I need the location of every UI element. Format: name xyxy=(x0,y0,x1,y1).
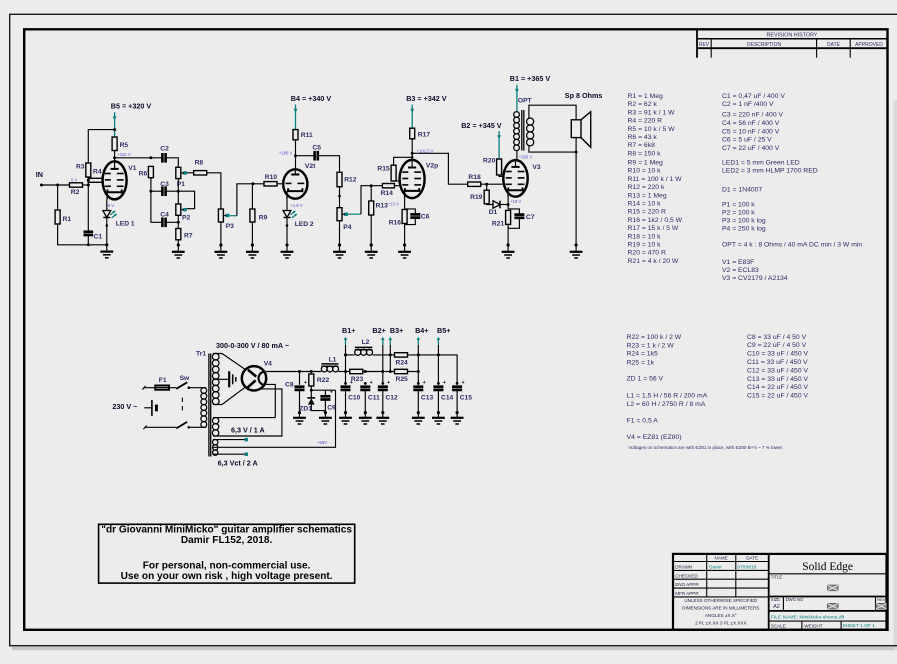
svg-text:C13 = 33 uF / 450 V: C13 = 33 uF / 450 V xyxy=(747,376,808,383)
svg-text:For personal, non-commercial u: For personal, non-commercial use. xyxy=(143,560,311,571)
svg-text:B5 = +320 V: B5 = +320 V xyxy=(111,102,152,111)
svg-text:R17 = 15 k / 5 W: R17 = 15 k / 5 W xyxy=(628,225,679,232)
wire B1 riser xyxy=(345,345,347,385)
wire IN to R2 xyxy=(42,184,70,186)
resistor R11 xyxy=(293,130,313,140)
svg-text:6,3 V / 1 A: 6,3 V / 1 A xyxy=(231,425,265,434)
ground R9 xyxy=(251,243,254,246)
svg-text:UNLESS OTHERWISE SPECIFIED: UNLESS OTHERWISE SPECIFIED xyxy=(684,598,758,603)
svg-text:R10: R10 xyxy=(265,174,278,181)
fuse F1 xyxy=(155,377,169,390)
svg-text:R17: R17 xyxy=(418,132,431,139)
svg-text:C14 = 22 uF / 450 V: C14 = 22 uF / 450 V xyxy=(747,384,808,391)
svg-text:IN: IN xyxy=(36,170,43,179)
junction C1 at bottom bus xyxy=(87,243,90,246)
wire C8 to ground xyxy=(299,390,301,412)
wire C3 to P2 wiper loop xyxy=(166,191,195,209)
junction R6 top xyxy=(149,156,152,159)
svg-text:DESCRIPTION: DESCRIPTION xyxy=(747,42,782,48)
pentode V2p tube xyxy=(400,160,439,199)
resistor R15 xyxy=(377,165,396,181)
ground ZD1 C9 xyxy=(324,411,327,414)
wire P2 to R7 xyxy=(177,215,179,228)
wire V4 cathode output xyxy=(266,371,322,373)
wire P3 wiper riser to V2 grid xyxy=(237,184,264,216)
switch link dashed xyxy=(181,398,183,402)
wire R8 to P3 xyxy=(207,173,221,209)
LED1 diode xyxy=(103,211,135,228)
ground HV center tap rotated xyxy=(229,371,236,387)
svg-text:C1: C1 xyxy=(94,234,103,241)
wire L1 to B1 node xyxy=(338,371,349,373)
wire top bus to R3 xyxy=(88,130,114,163)
svg-text:CHECKED: CHECKED xyxy=(675,573,698,578)
svg-text:B4 = +340 V: B4 = +340 V xyxy=(291,94,332,103)
node IN terminal xyxy=(40,184,43,187)
wire R3 to grid column xyxy=(87,177,89,232)
supply tap arrow B4 xyxy=(417,340,419,345)
svg-text:300-0-300 V / 80 mA ~: 300-0-300 V / 80 mA ~ xyxy=(216,341,289,350)
Tr1 6.3V winding xyxy=(212,417,218,423)
svg-text:C11 = 33 uF / 450 V: C11 = 33 uF / 450 V xyxy=(747,359,808,366)
wire C11 to ground xyxy=(364,390,366,412)
title block frame xyxy=(673,554,887,630)
svg-text:C8: C8 xyxy=(285,381,294,388)
resistor R21 xyxy=(492,210,511,227)
svg-text:D1 = 1N4007: D1 = 1N4007 xyxy=(722,187,762,194)
OPT core xyxy=(521,110,523,151)
capacitor C4 xyxy=(160,211,169,227)
junction V2 anode xyxy=(294,154,297,157)
ground R16 xyxy=(403,243,406,246)
wire B3 riser xyxy=(389,345,391,372)
revision history table xyxy=(697,31,888,58)
svg-text:V1: V1 xyxy=(128,165,136,172)
svg-text:R25 = 1k: R25 = 1k xyxy=(627,359,655,366)
svg-text:R9 = 1 Meg: R9 = 1 Meg xyxy=(628,160,664,167)
svg-text:DRAWN: DRAWN xyxy=(675,565,692,570)
wire R9 to ground xyxy=(251,222,253,245)
svg-text:F1 = 0,5 A: F1 = 0,5 A xyxy=(627,418,659,425)
wire row B R25 to B4 xyxy=(408,371,419,373)
wire V2 anode to C5 xyxy=(296,155,315,157)
svg-text:B4+: B4+ xyxy=(415,326,428,335)
junction B2 row B xyxy=(381,370,384,373)
wire R15 to V2p screen xyxy=(394,180,400,182)
wire R22 to ZD1 node xyxy=(310,386,312,398)
wire R20 to V3 screen xyxy=(499,175,504,176)
rectifier V4 tube xyxy=(242,360,272,390)
svg-text:P4: P4 xyxy=(343,224,351,231)
svg-text:R20 = 470 R: R20 = 470 R xyxy=(628,250,666,257)
wire row A R24 to C15 drop xyxy=(408,355,458,385)
wire R9 top xyxy=(251,184,253,209)
svg-text:L2 = 60 H / 2750 R / 8 mA: L2 = 60 H / 2750 R / 8 mA xyxy=(627,401,706,408)
junction C8 top xyxy=(298,370,301,373)
sheet shadow right xyxy=(894,100,897,650)
OPT primary winding xyxy=(514,112,520,118)
wire mains bottom xyxy=(145,426,177,428)
svg-text:MFR APPR: MFR APPR xyxy=(675,591,699,596)
wire 6.3Vct bottom tap xyxy=(213,453,245,455)
svg-text:C3 = 220 nF / 400 V: C3 = 220 nF / 400 V xyxy=(722,112,783,119)
capacitor C1 xyxy=(84,232,103,241)
junction B4 row B xyxy=(417,370,420,373)
svg-text:Sp 8 Ohms: Sp 8 Ohms xyxy=(565,91,603,100)
svg-text:C15 = 22 uF / 450 V: C15 = 22 uF / 450 V xyxy=(747,393,808,400)
svg-text:L1 = 1,5 H / 56 R / 200 mA: L1 = 1,5 H / 56 R / 200 mA xyxy=(627,392,708,399)
ground C12 xyxy=(381,411,384,414)
wire P3 wiper teal xyxy=(230,215,237,217)
wire speaker to ground xyxy=(575,138,577,245)
svg-text:DATE: DATE xyxy=(827,42,841,48)
svg-text:R18 = 10 k: R18 = 10 k xyxy=(628,233,662,240)
svg-text:R14 = 10 k: R14 = 10 k xyxy=(628,201,662,208)
wire C13 to ground xyxy=(417,390,419,412)
capacitor C7 xyxy=(514,214,534,221)
wire R5 to V1 anode xyxy=(114,151,116,163)
switch Sw top pole xyxy=(176,375,190,389)
svg-text:C5: C5 xyxy=(312,144,321,151)
wire down to R1 xyxy=(57,185,59,210)
svg-text:C7 = 22 uF / 400 V: C7 = 22 uF / 400 V xyxy=(722,145,780,152)
resistor R3 xyxy=(76,163,91,177)
svg-text:L1: L1 xyxy=(329,357,337,364)
svg-text:R3: R3 xyxy=(76,163,85,170)
wire R21 C7 top bus xyxy=(508,209,519,214)
resistor R13 xyxy=(369,201,388,215)
svg-text:C10 = 33 uF / 450 V: C10 = 33 uF / 450 V xyxy=(747,351,808,358)
svg-text:DATE: DATE xyxy=(746,556,758,561)
LED2 diode xyxy=(283,211,314,229)
svg-text:C4: C4 xyxy=(160,211,169,218)
svg-text:R11 = 100 k / 1 W: R11 = 100 k / 1 W xyxy=(628,176,683,183)
capacitor C15 xyxy=(452,380,472,402)
wire OPT primary to V3 anode xyxy=(516,151,518,162)
svg-text:+162 V: +162 V xyxy=(117,152,131,157)
svg-text:Sw: Sw xyxy=(180,375,190,382)
svg-text:D1: D1 xyxy=(489,209,498,216)
resistor R23 xyxy=(350,369,364,383)
wire B5 riser xyxy=(437,345,439,385)
svg-text:+56V: +56V xyxy=(317,440,327,445)
wire C3 bus xyxy=(151,190,162,192)
wire 6.3Vct center tap +56V line xyxy=(213,390,336,447)
svg-text:C4 = 56 nF / 400 V: C4 = 56 nF / 400 V xyxy=(722,120,780,127)
resistor R19 xyxy=(470,190,489,204)
svg-text:07/09/18: 07/09/18 xyxy=(738,565,757,571)
svg-text:R21 = 4 k / 20 W: R21 = 4 k / 20 W xyxy=(628,258,679,265)
resistor R1 xyxy=(55,210,71,224)
parts list PSU capacitors xyxy=(747,334,808,400)
Tr1 primary winding xyxy=(200,387,207,389)
junction B3 row B xyxy=(389,370,392,373)
svg-text:+: + xyxy=(443,380,446,386)
ground LED2 xyxy=(285,243,288,246)
wire C9 to ground xyxy=(324,400,326,413)
svg-text:P2: P2 xyxy=(182,215,190,222)
potentiometer P1 xyxy=(176,167,187,188)
svg-text:+181.5 V: +181.5 V xyxy=(417,148,434,153)
wire V2 cathode to LED2 xyxy=(286,199,288,210)
junction C11 top xyxy=(364,370,367,373)
capacitor C14 xyxy=(433,380,453,402)
wire row A B1 to L2 xyxy=(346,354,355,356)
junction B5 row A xyxy=(437,353,440,356)
ground P4 xyxy=(338,243,341,246)
capacitor C5 xyxy=(312,144,321,160)
resistor R18 xyxy=(468,174,481,186)
svg-text:2 PL ±X.XX 3 PL ±X.XXX: 2 PL ±X.XX 3 PL ±X.XXX xyxy=(695,620,746,625)
junction speaker return xyxy=(575,151,578,154)
OPT secondary winding xyxy=(527,118,534,125)
wire R18 to V3 grid xyxy=(481,183,504,185)
wire R21 to ground xyxy=(507,224,509,245)
junction R4 tap xyxy=(87,179,90,182)
junction V1 anode xyxy=(113,156,116,159)
svg-text:L2: L2 xyxy=(362,339,370,346)
wire V2p cathode to R16 C6 xyxy=(404,199,406,209)
svg-text:R24 = 1k5: R24 = 1k5 xyxy=(627,351,658,358)
wire 6.3V bottom tap xyxy=(213,389,282,436)
svg-text:C14: C14 xyxy=(441,395,454,402)
wire HV center tap xyxy=(213,378,228,380)
wire C1 to bottom bus xyxy=(87,235,89,245)
resistor R20 xyxy=(483,158,502,175)
Tr1 HV secondary winding xyxy=(212,353,219,360)
wire HV top tap to V4 xyxy=(213,354,246,370)
wire row A L2 to R24 xyxy=(372,354,394,356)
svg-text:C10: C10 xyxy=(348,395,361,402)
svg-text:R23 = 1 k / 2 W: R23 = 1 k / 2 W xyxy=(627,342,675,349)
wire R19 to D1 xyxy=(487,203,493,206)
Tr1 core xyxy=(208,354,210,457)
resistor R25 xyxy=(395,369,409,383)
svg-text:LED2 = 3 mm HLMP 1700 RED: LED2 = 3 mm HLMP 1700 RED xyxy=(722,168,818,175)
svg-text:ZD 1 = 56 V: ZD 1 = 56 V xyxy=(627,375,664,382)
switch Sw bottom pole xyxy=(176,422,187,429)
wire LED1 to ground xyxy=(106,218,108,245)
supply tap arrow B5 xyxy=(437,340,439,345)
resistor R5 xyxy=(112,137,128,151)
wire OPT secondary bottom xyxy=(529,146,576,152)
svg-text:R2: R2 xyxy=(71,189,80,196)
wire R16 to ground xyxy=(404,224,406,246)
wire F1 to switch xyxy=(169,387,176,389)
supply tap arrow B3 xyxy=(389,340,391,345)
wire C2 to P1 xyxy=(166,158,178,168)
resistor R22 xyxy=(309,372,330,387)
supply tap arrow B1 xyxy=(345,340,347,345)
svg-text:F1: F1 xyxy=(159,377,167,384)
svg-text:B3+: B3+ xyxy=(390,326,403,335)
wire V1 anode bus to C2 xyxy=(115,157,163,159)
wire R12 to P4 xyxy=(339,187,341,208)
svg-text:C9: C9 xyxy=(327,404,336,411)
svg-text:R6 = 43 k: R6 = 43 k xyxy=(628,134,658,141)
svg-text:R8: R8 xyxy=(195,160,204,167)
junction R19 tap xyxy=(485,183,488,186)
svg-text:V3: V3 xyxy=(532,164,540,171)
svg-text:+18 V: +18 V xyxy=(510,199,521,204)
wire R1 to bottom bus xyxy=(58,224,107,245)
wire R6 to C3 bus xyxy=(150,178,152,192)
svg-text:+: + xyxy=(387,380,390,386)
parts list resistors R1-R21 xyxy=(628,93,683,265)
svg-text:R7 = 6k8: R7 = 6k8 xyxy=(628,142,656,149)
resistor R14 xyxy=(381,184,395,197)
ground R13 xyxy=(370,243,373,246)
svg-text:Damir: Damir xyxy=(709,565,722,571)
svg-text:+: + xyxy=(462,380,465,386)
wire mains top xyxy=(144,387,156,389)
wire row B R23 to R25 xyxy=(363,371,395,373)
wire screen R15 branch xyxy=(394,157,413,165)
svg-text:R7: R7 xyxy=(184,233,193,240)
wire C5 to R12 xyxy=(318,156,339,173)
ground C14 xyxy=(437,411,440,414)
svg-text:R1 = 1 Meg: R1 = 1 Meg xyxy=(628,93,664,100)
svg-text:C12 = 33 uF / 450 V: C12 = 33 uF / 450 V xyxy=(747,367,808,374)
supply arrow B4 xyxy=(295,105,297,130)
svg-text:R16: R16 xyxy=(389,220,402,227)
diode D1 xyxy=(489,201,500,216)
svg-text:WEIGHT: WEIGHT xyxy=(804,623,823,628)
resistor R24 xyxy=(395,353,409,367)
inductor L2 xyxy=(355,339,373,355)
title block name date grid xyxy=(673,554,769,625)
svg-text:C2 = 1 nF /400 V: C2 = 1 nF /400 V xyxy=(722,101,774,108)
wire R7 to ground xyxy=(177,240,179,245)
svg-text:TITLE: TITLE xyxy=(771,575,783,580)
resistor R10 xyxy=(264,174,277,186)
svg-text:0 V: 0 V xyxy=(71,177,77,182)
ground C8 xyxy=(298,411,301,414)
wire R11 to V2 anode xyxy=(295,140,297,170)
wire ZD1 to bottom bus xyxy=(311,405,325,411)
junction R2 tap xyxy=(87,184,90,187)
wire anode bus to R18 xyxy=(412,153,468,184)
svg-text:P1 = 100 k: P1 = 100 k xyxy=(722,201,755,208)
junction LED1 cathode xyxy=(106,224,109,227)
svg-text:P3 = 100 k log: P3 = 100 k log xyxy=(722,218,766,225)
svg-text:R4: R4 xyxy=(93,168,102,175)
capacitor C12 xyxy=(378,380,398,402)
disclaimer text box xyxy=(99,524,355,583)
wire P4 wiper riser to V2p grid xyxy=(361,186,382,215)
wire R2 to grid node xyxy=(83,184,89,186)
wire riser junction R13 xyxy=(370,186,372,201)
potentiometer P2 xyxy=(176,204,191,222)
ground C15 xyxy=(456,411,459,414)
ground C11 xyxy=(364,411,367,414)
wire C14 to ground xyxy=(437,390,439,412)
svg-text:NAME: NAME xyxy=(715,556,728,561)
svg-text:C3: C3 xyxy=(160,181,169,188)
wire C4 to R7 column xyxy=(166,221,178,223)
wire 6.3V top tap xyxy=(213,417,275,419)
svg-text:V4: V4 xyxy=(264,360,272,367)
svg-text:C7: C7 xyxy=(526,214,535,221)
junction B4 row A xyxy=(417,353,420,356)
triode V1 tube xyxy=(103,161,137,200)
svg-text:P2 = 100 k: P2 = 100 k xyxy=(722,209,755,216)
mains plug symbol xyxy=(144,400,156,416)
junction V2p anode xyxy=(411,152,414,155)
wire OPT secondary top to speaker xyxy=(529,105,576,120)
svg-text:B3 = +342 V: B3 = +342 V xyxy=(406,94,447,103)
svg-text:"dr Giovanni MiniMicko" guitar: "dr Giovanni MiniMicko" guitar amplifier… xyxy=(101,525,352,536)
parts list PSU left xyxy=(627,334,783,450)
svg-text:R13 = 1 Meg: R13 = 1 Meg xyxy=(628,192,667,199)
svg-text:R18: R18 xyxy=(468,174,481,181)
svg-text:C13: C13 xyxy=(421,395,434,402)
svg-text:6,3 Vct / 2 A: 6,3 Vct / 2 A xyxy=(218,459,258,468)
svg-text:R3 = 91 k / 1 W: R3 = 91 k / 1 W xyxy=(628,109,676,116)
svg-text:Solid Edge: Solid Edge xyxy=(802,561,853,573)
svg-text:R22 = 100 k / 2 W: R22 = 100 k / 2 W xyxy=(627,334,682,341)
svg-text:+: + xyxy=(350,380,353,386)
wire C4 left leg xyxy=(151,191,162,222)
svg-text:C2: C2 xyxy=(160,146,169,153)
wire R16 C6 top bus xyxy=(405,209,416,214)
parts list capacitors and others xyxy=(722,93,862,282)
svg-text:DWG NO: DWG NO xyxy=(786,597,804,602)
zener diode ZD1 xyxy=(299,398,315,413)
svg-text:LED1 = 5 mm Green LED: LED1 = 5 mm Green LED xyxy=(722,160,800,167)
svg-text:R16 = 1k2 / 0,5 W: R16 = 1k2 / 0,5 W xyxy=(628,217,683,224)
svg-text:R5: R5 xyxy=(120,142,129,149)
wire P1 to P2 xyxy=(177,179,179,204)
triode V2t tube xyxy=(283,163,316,199)
title placeholder symbol xyxy=(828,585,839,591)
svg-text:LED 2: LED 2 xyxy=(295,221,314,228)
svg-text:+1.8 V: +1.8 V xyxy=(290,203,302,208)
capacitor C13 xyxy=(413,380,433,402)
resistor R8 xyxy=(194,160,207,175)
potentiometer P3 xyxy=(218,209,234,230)
svg-text:LED 1: LED 1 xyxy=(116,221,135,228)
svg-text:V1 = E83F: V1 = E83F xyxy=(722,259,754,266)
svg-text:+363 V: +363 V xyxy=(519,154,533,159)
svg-text:Voltages on schematics are wit: Voltages on schematics are with EZ81 in … xyxy=(629,445,784,450)
svg-text:OPT: OPT xyxy=(518,98,533,105)
supply arrow B2 xyxy=(498,131,500,159)
svg-text:C9 = 22 uF / 4 50 V: C9 = 22 uF / 4 50 V xyxy=(747,342,807,349)
wire V4 heater stub xyxy=(266,384,275,417)
svg-text:R13: R13 xyxy=(376,202,389,209)
svg-text:C11: C11 xyxy=(368,395,380,402)
ground R7 xyxy=(177,243,180,246)
svg-text:ZD1: ZD1 xyxy=(299,406,312,413)
svg-text:B5+: B5+ xyxy=(437,326,450,335)
svg-text:R9: R9 xyxy=(259,214,268,221)
svg-text:Use on your own risk , high v: Use on your own risk , high voltage pres… xyxy=(121,571,333,582)
wire P3 to ground xyxy=(220,222,222,245)
svg-text:SCALE: SCALE xyxy=(771,623,786,628)
svg-text:+: + xyxy=(304,380,307,386)
svg-text:P4 = 250 k log: P4 = 250 k log xyxy=(722,226,766,233)
svg-text:P3: P3 xyxy=(226,223,234,230)
supply arrow B1 xyxy=(516,85,518,112)
resistor R9 xyxy=(250,209,268,222)
junction LED2 cathode xyxy=(286,224,289,227)
wire C10 to ground xyxy=(345,390,347,412)
wire switch to primary top xyxy=(189,387,200,389)
svg-text:ANGLES ±X.X°: ANGLES ±X.X° xyxy=(705,613,737,618)
svg-text:+180 V: +180 V xyxy=(279,151,293,156)
wire C15 to ground xyxy=(456,390,458,412)
